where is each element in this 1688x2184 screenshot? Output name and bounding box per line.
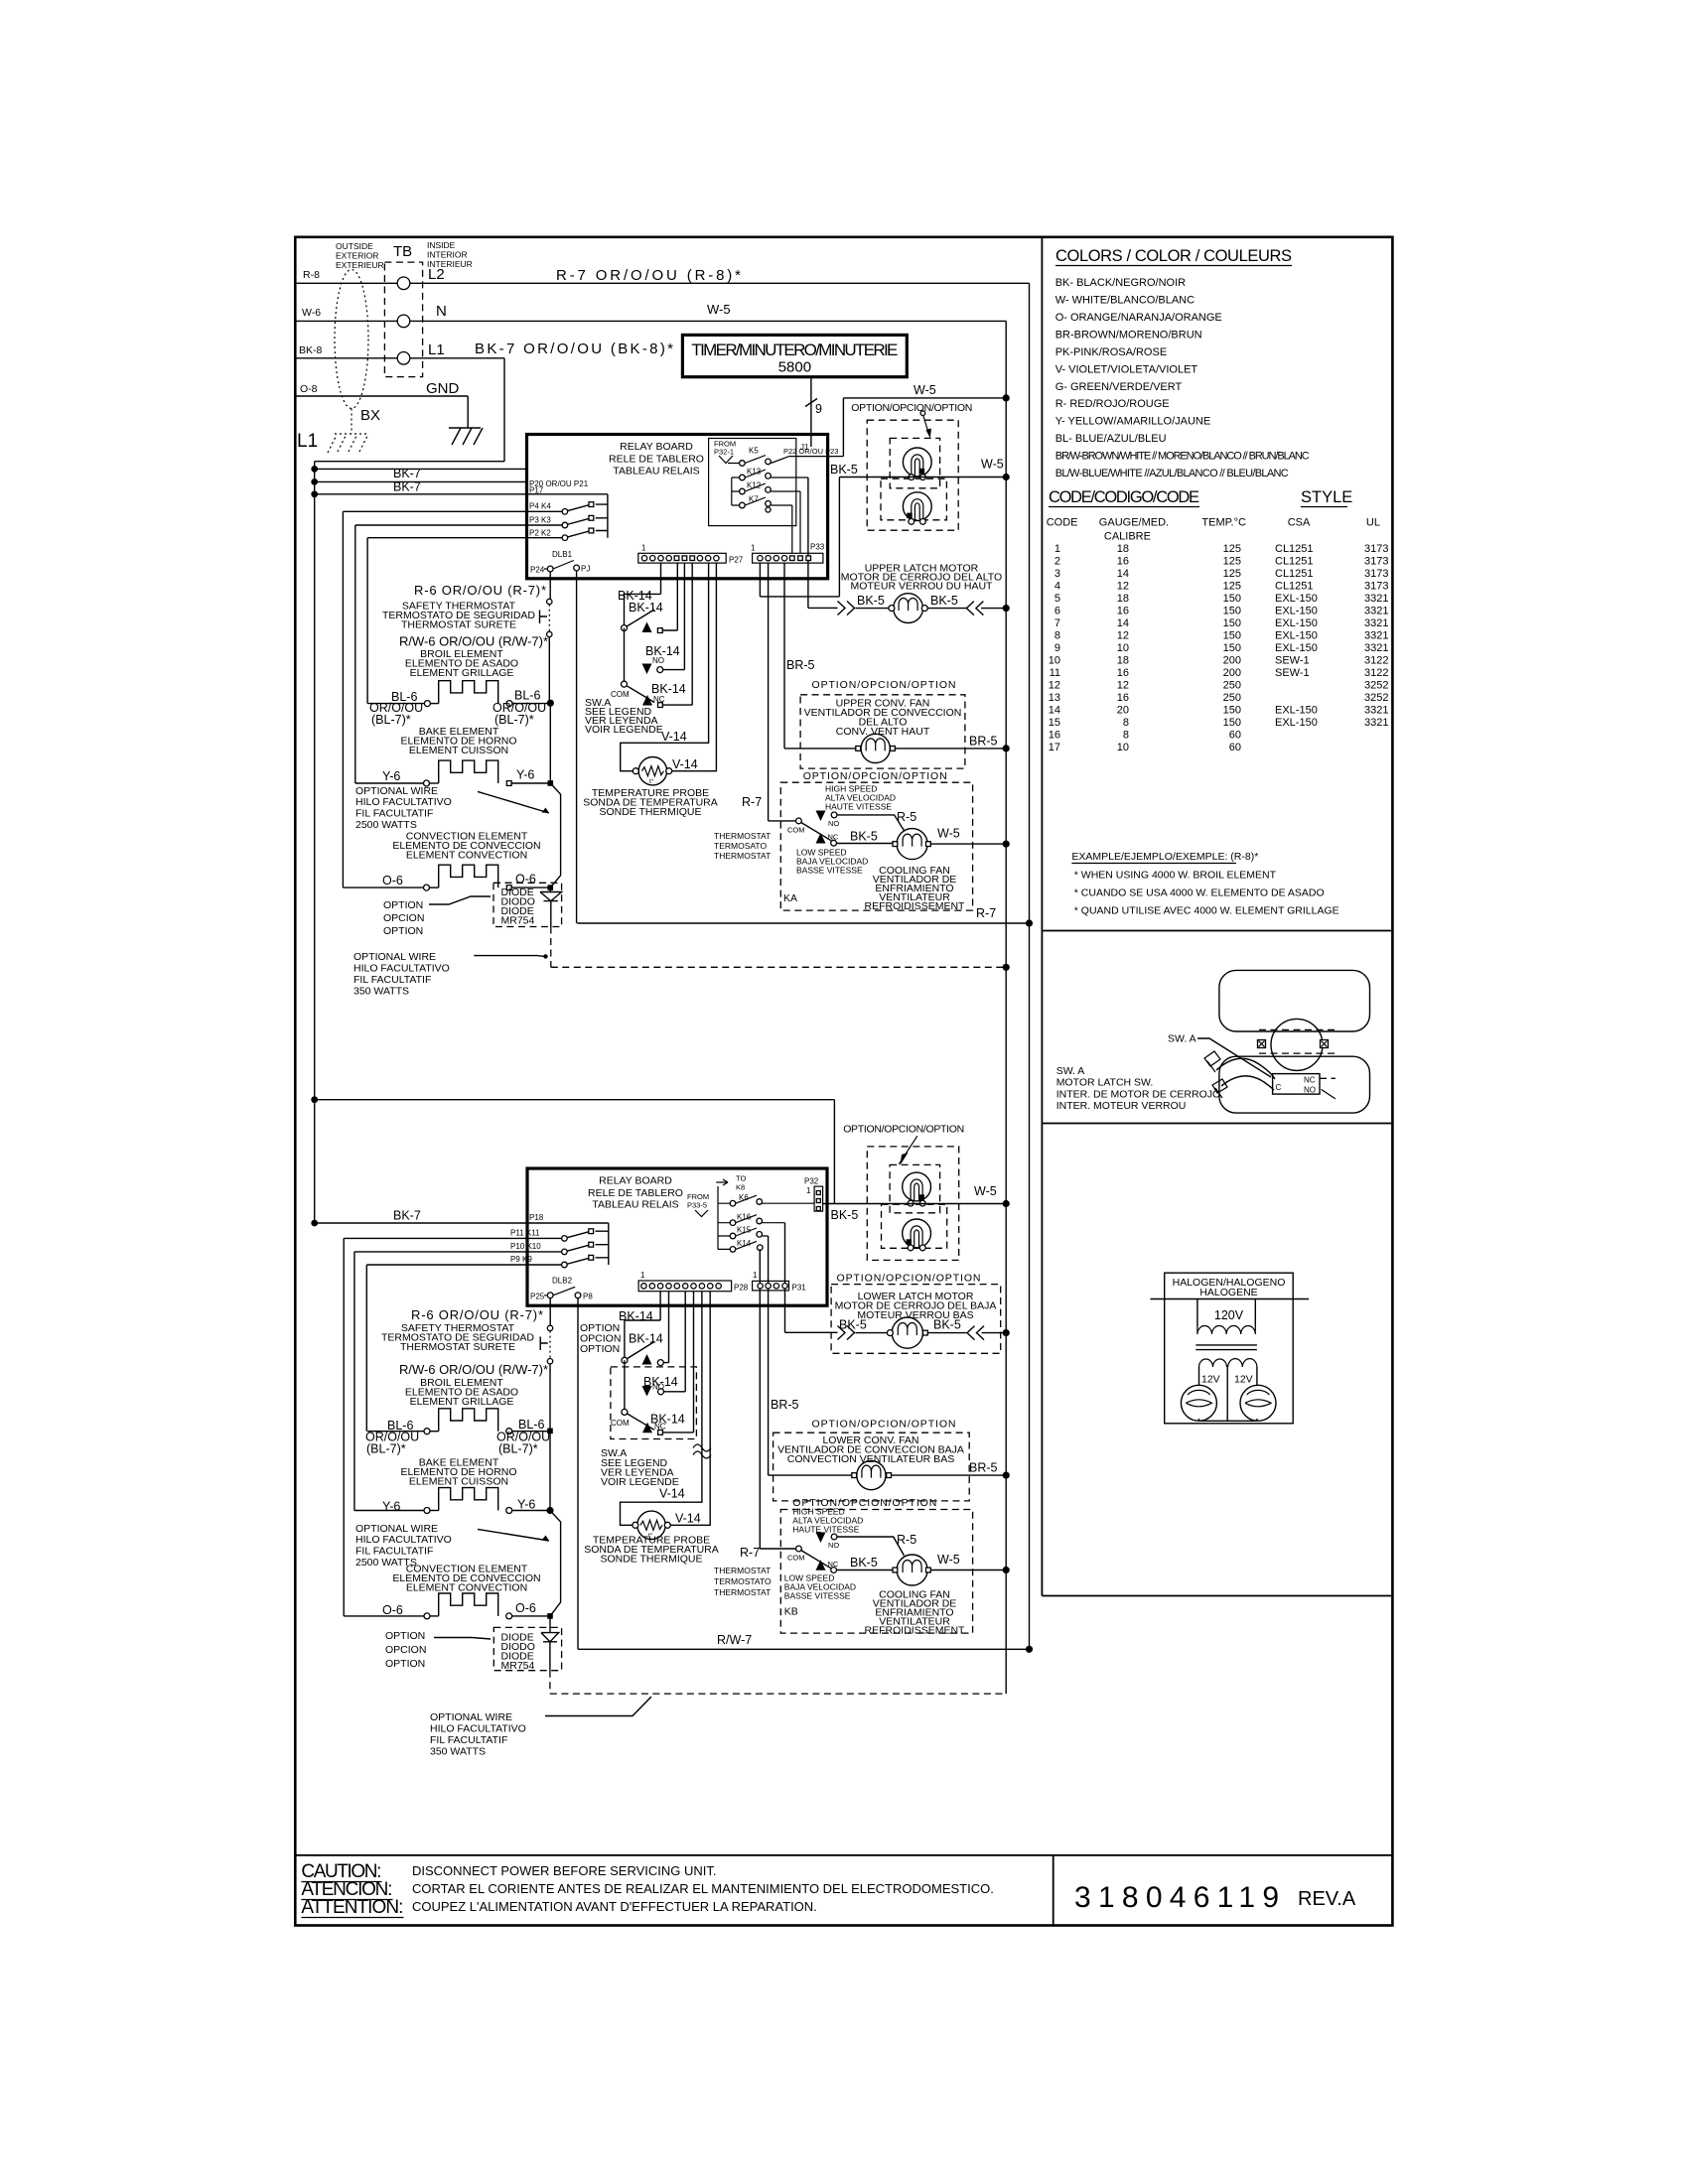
svg-text:R/W-6 OR/O/OU (R/W-7)*: R/W-6 OR/O/OU (R/W-7)* — [399, 634, 548, 649]
svg-text:TB: TB — [393, 243, 412, 260]
svg-text:20: 20 — [1117, 705, 1129, 717]
svg-text:COM: COM — [787, 1554, 805, 1563]
svg-text:R-8: R-8 — [303, 269, 320, 281]
svg-text:P33-5: P33-5 — [687, 1201, 707, 1210]
door solenoid inner box 1 lower — [890, 1164, 940, 1212]
relay board 1 (upper) — [527, 435, 828, 579]
svg-text:BR/W-BROWN/WHITE // MORENO/BLA: BR/W-BROWN/WHITE // MORENO/BLANCO // BRU… — [1055, 451, 1310, 463]
junction dot conv fan upper — [1003, 745, 1010, 751]
svg-text:12: 12 — [1117, 581, 1129, 593]
svg-text:R-6 OR/O/OU (R-7)*: R-6 OR/O/OU (R-7)* — [414, 583, 546, 598]
wire R-8 L2 top line — [295, 282, 1029, 284]
svg-text:O-6: O-6 — [515, 1601, 536, 1615]
svg-text:R-5: R-5 — [897, 810, 916, 824]
svg-text:P22 OR/OU P23: P22 OR/OU P23 — [783, 447, 838, 456]
svg-text:18: 18 — [1117, 655, 1129, 667]
relay DLB1 — [544, 561, 574, 570]
arrow from P32-1 — [719, 456, 733, 464]
svg-text:PJ: PJ — [581, 565, 590, 574]
svg-text:ELEMENT CONVECTION: ELEMENT CONVECTION — [406, 1582, 527, 1594]
svg-text:10: 10 — [1117, 642, 1129, 654]
svg-text:W-5: W-5 — [937, 1553, 960, 1567]
wire latch motor left upper — [856, 608, 889, 610]
svg-text:12: 12 — [1049, 680, 1060, 692]
latch spade terminal 1 — [1204, 1051, 1220, 1072]
svg-text:BK-14: BK-14 — [651, 682, 686, 696]
wire K11 to convection element lower — [344, 1238, 424, 1616]
wire K16 to lower latch motor — [785, 1223, 838, 1333]
wire P22/P23 to W-5 — [843, 398, 1006, 457]
svg-text:P27: P27 — [729, 556, 744, 565]
halogen lamp 1 — [1181, 1385, 1216, 1421]
svg-text:150: 150 — [1223, 642, 1241, 654]
svg-text:3321: 3321 — [1364, 642, 1388, 654]
svg-text:NC: NC — [654, 1423, 666, 1432]
broil element lower — [367, 1431, 424, 1433]
svg-text:INSIDE: INSIDE — [427, 240, 456, 250]
svg-text:120V: 120V — [1214, 1308, 1244, 1322]
svg-text:COM: COM — [611, 1419, 630, 1428]
svg-text:3321: 3321 — [1364, 593, 1388, 605]
thermostat switch lower — [796, 1546, 802, 1552]
svg-text:1: 1 — [751, 544, 756, 553]
svg-text:HAUTE VITESSE: HAUTE VITESSE — [792, 1525, 859, 1535]
svg-text:THERMOSTAT: THERMOSTAT — [714, 851, 771, 861]
svg-text:HILO FACULTATIVO: HILO FACULTATIVO — [355, 1534, 452, 1546]
svg-text:3321: 3321 — [1364, 606, 1388, 617]
svg-text:MOTEUR VERROU DU HAUT: MOTEUR VERROU DU HAUT — [851, 581, 994, 593]
svg-text:OUTSIDE: OUTSIDE — [336, 241, 373, 251]
svg-text:EXL-150: EXL-150 — [1275, 606, 1318, 617]
svg-text:COM: COM — [787, 826, 805, 835]
relay board 2 (lower) — [527, 1168, 827, 1305]
pointer optional wire upper — [478, 791, 549, 813]
wire NC to motor upper — [837, 843, 896, 845]
svg-text:OPTIONAL WIRE: OPTIONAL WIRE — [430, 1711, 512, 1723]
svg-text:EXL-150: EXL-150 — [1275, 705, 1318, 717]
wire P28 pin3 to BK-14 chain lower — [625, 1292, 660, 1361]
junction broil right upper — [547, 700, 554, 707]
wire V-14 probe left upper — [621, 563, 709, 771]
relay K7 — [732, 497, 792, 553]
svg-text:Y-6: Y-6 — [516, 768, 534, 782]
wire V-14 probe right upper — [672, 563, 717, 771]
svg-text:K12: K12 — [747, 481, 762, 490]
caution part number divider — [1053, 1855, 1055, 1926]
svg-text:HALOGENE: HALOGENE — [1199, 1287, 1257, 1298]
diode symbol lower — [541, 1616, 559, 1671]
svg-text:1: 1 — [753, 1271, 758, 1280]
svg-text:BK-7: BK-7 — [393, 480, 421, 494]
svg-text:1: 1 — [640, 1271, 645, 1280]
svg-text:L1: L1 — [297, 431, 318, 452]
svg-text:150: 150 — [1223, 717, 1241, 729]
svg-text:BK-5: BK-5 — [850, 1556, 878, 1570]
switch SW.A upper contact 1 — [625, 563, 678, 630]
svg-text:BR-5: BR-5 — [969, 1461, 998, 1475]
svg-text:NO: NO — [828, 1541, 839, 1550]
terminal block TB dashed box — [384, 262, 422, 377]
latch micro switch box — [1273, 1074, 1320, 1095]
svg-text:L1: L1 — [428, 341, 445, 358]
svg-text:(BL-7)*: (BL-7)* — [494, 713, 534, 727]
svg-text:150: 150 — [1223, 606, 1241, 617]
wire NO to motor upper — [837, 815, 905, 832]
svg-text:BR-5: BR-5 — [771, 1398, 799, 1412]
door solenoid inner box 2 upper — [881, 478, 946, 520]
svg-text:THERMOSTAT SURETE: THERMOSTAT SURETE — [400, 1341, 515, 1353]
latch pictorial rounded rect bottom — [1219, 1056, 1370, 1113]
svg-text:60: 60 — [1229, 730, 1241, 742]
junction bake right lower — [546, 1507, 553, 1514]
svg-text:P8: P8 — [583, 1293, 593, 1301]
svg-text:CORTAR EL CORIENTE ANTES DE RE: CORTAR EL CORIENTE ANTES DE REALIZAR EL … — [412, 1881, 994, 1896]
svg-text:THERMOSTAT: THERMOSTAT — [714, 1587, 771, 1597]
halogen secondary wires — [1198, 1367, 1257, 1421]
lower conv fan motor — [857, 1461, 886, 1490]
junction convection right upper — [548, 885, 554, 890]
latch motor option box lower — [831, 1285, 1001, 1354]
wire conv fan right upper — [895, 748, 1006, 750]
wire K10 to bake element lower — [354, 1252, 424, 1511]
svg-text:* QUAND UTILISE AVEC 4000 W. E: * QUAND UTILISE AVEC 4000 W. ELEMENT GRI… — [1074, 905, 1339, 917]
svg-text:NC: NC — [653, 695, 665, 704]
svg-text:200: 200 — [1223, 667, 1241, 679]
junction dot R-7 upper — [1026, 919, 1033, 926]
svg-text:R-7: R-7 — [740, 1546, 760, 1560]
halogen core — [1196, 1345, 1257, 1350]
door lock option box lower — [867, 1147, 958, 1261]
relay K10 row — [354, 1245, 609, 1252]
switch SW.A lower COM/NC — [625, 1292, 694, 1433]
svg-text:O-6: O-6 — [515, 873, 536, 887]
svg-text:P18: P18 — [529, 1213, 544, 1222]
cooling fan box KA — [780, 782, 972, 910]
svg-text:GND: GND — [426, 380, 460, 397]
svg-text:REV.A: REV.A — [1298, 1888, 1356, 1910]
svg-text:SONDE THERMIQUE: SONDE THERMIQUE — [599, 806, 701, 818]
svg-text:OPTION/OPCION/OPTION: OPTION/OPCION/OPTION — [812, 1419, 956, 1431]
halogen secondary — [1199, 1359, 1257, 1367]
relay K13 — [732, 470, 808, 478]
svg-text:TABLEAU RELAIS: TABLEAU RELAIS — [613, 466, 699, 478]
door solenoid inner box 2 lower — [882, 1204, 947, 1248]
svg-text:8: 8 — [1123, 730, 1129, 742]
svg-text:BK-14: BK-14 — [619, 1309, 653, 1323]
svg-text:CSA: CSA — [1288, 517, 1311, 529]
legend column divider box — [1042, 237, 1392, 931]
junction bake right upper — [548, 780, 554, 786]
svg-text:V- VIOLET/VIOLETA/VIOLET: V- VIOLET/VIOLETA/VIOLET — [1055, 364, 1198, 376]
svg-text:BX: BX — [360, 407, 380, 424]
latch switch NO lead — [1322, 1089, 1336, 1099]
wire W-5 main vertical — [1005, 321, 1007, 1694]
svg-text:EXTERIOR: EXTERIOR — [336, 251, 378, 261]
arrow from P33-5 — [695, 1210, 708, 1217]
svg-text:10: 10 — [1117, 742, 1129, 753]
svg-text:EXL-150: EXL-150 — [1275, 593, 1318, 605]
wire cooling fan right upper — [930, 843, 1006, 845]
svg-text:BK-14: BK-14 — [629, 1332, 663, 1346]
svg-text:P3 K3: P3 K3 — [529, 516, 551, 525]
halogen primary — [1197, 1299, 1255, 1327]
svg-text:TERMOSATO: TERMOSATO — [714, 841, 767, 851]
svg-text:NC: NC — [1304, 1076, 1316, 1085]
connector P31 — [753, 1281, 789, 1291]
latch switch NC dashed lead — [1320, 1077, 1336, 1079]
svg-text:K6: K6 — [739, 1193, 749, 1202]
svg-text:Y-6: Y-6 — [382, 769, 400, 783]
svg-text:NC: NC — [828, 833, 839, 842]
bake element lower — [424, 1508, 430, 1514]
solenoid 2 upper — [903, 492, 931, 521]
BX tail dotted — [351, 409, 352, 435]
svg-text:1: 1 — [806, 1186, 811, 1195]
svg-text:STYLE: STYLE — [1301, 488, 1352, 506]
junction dot solenoid line upper — [1003, 474, 1010, 480]
wire BK-7 to P17 — [315, 480, 527, 482]
wire BK-5 solenoid line lower — [823, 1203, 1007, 1205]
svg-text:10: 10 — [1049, 655, 1060, 667]
svg-text:ELEMENT GRILLAGE: ELEMENT GRILLAGE — [410, 1396, 514, 1408]
svg-text:18: 18 — [1117, 543, 1129, 555]
svg-text:ELEMENT CONVECTION: ELEMENT CONVECTION — [406, 850, 527, 862]
svg-text:* WHEN USING 4000 W. BROIL ELE: * WHEN USING 4000 W. BROIL ELEMENT — [1074, 870, 1277, 882]
svg-text:K16: K16 — [737, 1213, 752, 1222]
wire P17 switch bus — [315, 494, 608, 538]
svg-text:P2 K2: P2 K2 — [529, 529, 551, 538]
relay K5 — [728, 456, 843, 464]
relay K11 row — [344, 1231, 609, 1238]
svg-text:125: 125 — [1223, 543, 1241, 555]
svg-text:C: C — [1276, 1083, 1282, 1092]
svg-text:W- WHITE/BLANCO/BLANC: W- WHITE/BLANCO/BLANC — [1055, 295, 1195, 307]
legend table rows — [1049, 543, 1389, 753]
svg-text:BL/W-BLUE/WHITE //AZUL/BLANCO: BL/W-BLUE/WHITE //AZUL/BLANCO // BLEU/BL… — [1055, 468, 1289, 479]
svg-text:OPTION/OPCION/OPTION: OPTION/OPCION/OPTION — [837, 1273, 981, 1285]
terminal N — [397, 315, 410, 328]
pointer SW. A — [1197, 1038, 1271, 1077]
svg-text:K5: K5 — [749, 447, 759, 456]
svg-text:150: 150 — [1223, 617, 1241, 629]
svg-text:OPTION/OPCION/OPTION: OPTION/OPCION/OPTION — [843, 1124, 964, 1136]
svg-text:FIL FACULTATIF: FIL FACULTATIF — [430, 1734, 507, 1746]
svg-text:INTERIOR: INTERIOR — [427, 250, 468, 260]
svg-text:125: 125 — [1223, 556, 1241, 568]
svg-text:14: 14 — [1117, 568, 1129, 580]
conv fan option box upper — [800, 695, 965, 768]
pointer optional wire lower — [478, 1529, 549, 1541]
halogen 120V feed line — [1151, 1298, 1310, 1300]
svg-text:P33: P33 — [810, 543, 825, 552]
svg-text:BK-8: BK-8 — [299, 344, 323, 356]
svg-text:BK-5: BK-5 — [839, 1318, 867, 1332]
junction dot conv fan lower — [1003, 1472, 1010, 1479]
svg-text:EXL-150: EXL-150 — [1275, 642, 1318, 654]
bake element upper — [424, 780, 430, 786]
solenoid 1 upper — [903, 448, 931, 477]
wire O-8 GND line — [295, 396, 468, 428]
wire latch motor right lower — [927, 1332, 1006, 1334]
latch pictorial mount screws — [1258, 1040, 1266, 1048]
svg-text:OPCION: OPCION — [385, 1644, 426, 1656]
svg-text:3122: 3122 — [1364, 655, 1388, 667]
svg-text:3321: 3321 — [1364, 630, 1388, 642]
svg-text:P25: P25 — [530, 1293, 545, 1301]
junction dot optional upper — [1003, 964, 1010, 971]
svg-text:DLB1: DLB1 — [552, 550, 573, 559]
svg-text:12: 12 — [1117, 680, 1129, 692]
svg-text:150: 150 — [1223, 630, 1241, 642]
svg-text:V-14: V-14 — [675, 1512, 701, 1526]
svg-text:TIMER/MINUTERO/MINUTERIE: TIMER/MINUTERO/MINUTERIE — [691, 341, 898, 359]
svg-text:BK-5: BK-5 — [850, 830, 878, 844]
halogen panel box — [1042, 1124, 1392, 1596]
relay K6 lower — [718, 1186, 814, 1249]
junction convection right lower — [547, 1613, 553, 1619]
halogen transformer box — [1165, 1273, 1294, 1424]
optional wire dashed lower — [550, 1671, 1006, 1694]
pointer option diode lower — [434, 1638, 491, 1640]
relay switch left bus upper — [731, 478, 733, 505]
svg-text:RELE DE TABLERO: RELE DE TABLERO — [609, 454, 704, 466]
svg-text:EXL-150: EXL-150 — [1275, 717, 1318, 729]
latch pictorial dashed shaft lines — [1259, 1029, 1335, 1053]
temperature probe lower — [637, 1511, 665, 1539]
svg-text:INTER. MOTEUR VERROU: INTER. MOTEUR VERROU — [1056, 1100, 1187, 1112]
svg-text:(BL-7)*: (BL-7)* — [371, 713, 411, 727]
svg-text:O-6: O-6 — [382, 874, 403, 887]
motor latch switch panel box — [1042, 931, 1392, 1124]
wire latch motor right upper — [927, 608, 1006, 610]
svg-text:R-7: R-7 — [742, 795, 762, 809]
svg-text:BR-5: BR-5 — [969, 735, 998, 749]
cooling fan motor lower — [897, 1555, 927, 1585]
svg-text:CALIBRE: CALIBRE — [1104, 531, 1151, 543]
thermostat switch upper — [796, 818, 802, 824]
svg-text:R-5: R-5 — [897, 1533, 916, 1547]
svg-text:G- GREEN/VERDE/VERT: G- GREEN/VERDE/VERT — [1055, 381, 1183, 393]
svg-text:R-7 OR/O/OU (R-8)*: R-7 OR/O/OU (R-8)* — [556, 267, 741, 284]
relay K14 lower — [718, 1241, 757, 1249]
wire K4 to convection element — [343, 511, 423, 887]
wire V-14 probe right lower — [670, 1292, 710, 1526]
diode symbol upper — [540, 887, 562, 926]
svg-text:OPTION/OPCION/OPTION: OPTION/OPCION/OPTION — [812, 679, 956, 691]
svg-text:16: 16 — [1049, 730, 1060, 742]
svg-text:O- ORANGE/NARANJA/ORANGE: O- ORANGE/NARANJA/ORANGE — [1055, 312, 1222, 324]
svg-text:11: 11 — [1050, 667, 1060, 679]
svg-text:BK-5: BK-5 — [930, 594, 958, 608]
svg-text:3252: 3252 — [1364, 680, 1388, 692]
svg-text:CL1251: CL1251 — [1275, 568, 1314, 580]
svg-text:3173: 3173 — [1364, 543, 1388, 555]
svg-text:OPTION: OPTION — [580, 1343, 620, 1355]
wire BK-8 L1 line — [295, 358, 504, 1223]
lower latch motor — [892, 1317, 922, 1348]
optional wire jog upper — [550, 783, 560, 887]
temperature probe upper — [638, 757, 666, 785]
svg-text:HILO FACULTATIVO: HILO FACULTATIVO — [430, 1723, 526, 1735]
wire R-7 to thermostat upper — [769, 563, 796, 821]
svg-text:W-5: W-5 — [937, 827, 960, 841]
svg-text:TEMP.°C: TEMP.°C — [1201, 517, 1246, 529]
svg-text:MOTOR LATCH SW.: MOTOR LATCH SW. — [1056, 1077, 1154, 1089]
svg-text:R- RED/ROJO/ROUGE: R- RED/ROJO/ROUGE — [1055, 398, 1170, 410]
svg-text:P32: P32 — [804, 1177, 819, 1186]
upper latch motor — [894, 594, 923, 623]
svg-text:16: 16 — [1117, 606, 1129, 617]
svg-text:INTER. DE MOTOR DE CERROJO: INTER. DE MOTOR DE CERROJO — [1056, 1089, 1220, 1101]
svg-text:RELAY BOARD: RELAY BOARD — [620, 441, 693, 453]
svg-text:12: 12 — [1117, 630, 1129, 642]
svg-text:60: 60 — [1229, 742, 1241, 753]
connector P33 — [753, 553, 823, 563]
svg-text:TERMOSTATO: TERMOSTATO — [714, 1576, 772, 1586]
svg-text:OPTION/OPCION/OPTION: OPTION/OPCION/OPTION — [851, 402, 972, 414]
svg-text:18: 18 — [1117, 593, 1129, 605]
svg-text:BR-5: BR-5 — [786, 658, 815, 672]
junction dot RW-7 — [1026, 1646, 1033, 1653]
svg-text:P24: P24 — [530, 566, 545, 575]
relay K9 row — [366, 1258, 609, 1265]
optional wire dashed upper — [551, 927, 1006, 968]
svg-text:3321: 3321 — [1364, 617, 1388, 629]
svg-text:9: 9 — [1055, 642, 1060, 654]
wire PJ to R-7 horizontal — [577, 571, 1030, 923]
svg-text:W-5: W-5 — [974, 1184, 997, 1198]
svg-text:125: 125 — [1223, 581, 1241, 593]
latch cable harness — [1216, 1058, 1275, 1079]
svg-text:P10 K10: P10 K10 — [510, 1242, 541, 1251]
svg-text:2500 WATTS: 2500 WATTS — [355, 819, 417, 831]
svg-text:O-8: O-8 — [300, 383, 318, 395]
upper conv fan motor — [861, 734, 890, 762]
svg-text:ELEMENT CUISSON: ELEMENT CUISSON — [409, 1476, 508, 1488]
conv fan option box lower — [774, 1433, 970, 1501]
wire R-7 main vertical — [1029, 283, 1031, 1649]
svg-text:250: 250 — [1223, 680, 1241, 692]
svg-text:150: 150 — [1223, 593, 1241, 605]
relay switch block box upper — [709, 439, 796, 526]
svg-text:3173: 3173 — [1364, 568, 1388, 580]
svg-text:Y- YELLOW/AMARILLO/JAUNE: Y- YELLOW/AMARILLO/JAUNE — [1055, 416, 1211, 428]
svg-text:BK-14: BK-14 — [629, 601, 663, 614]
svg-text:3: 3 — [1055, 568, 1060, 580]
solenoid 1 lower — [903, 1172, 931, 1201]
wire K3 to bake element — [355, 525, 424, 783]
svg-text:K7: K7 — [749, 495, 759, 504]
wire timer to J1 with 9 slash — [805, 377, 817, 447]
svg-text:5: 5 — [1055, 593, 1060, 605]
svg-text:CONVECTION VENTILATEUR BAS: CONVECTION VENTILATEUR BAS — [787, 1453, 954, 1465]
svg-text:3122: 3122 — [1364, 667, 1388, 679]
svg-text:16: 16 — [1117, 667, 1129, 679]
wire BK-7 to P18 lower — [315, 1223, 609, 1265]
svg-text:P32-1: P32-1 — [714, 448, 734, 457]
wire break squiggles lower — [693, 1444, 711, 1458]
svg-text:THERMOSTAT: THERMOSTAT — [714, 1566, 771, 1575]
svg-text:K14: K14 — [737, 1239, 752, 1248]
optional wire jog lower — [550, 1511, 561, 1616]
svg-text:Y-6: Y-6 — [382, 1500, 400, 1514]
svg-text:BASSE VITESSE: BASSE VITESSE — [784, 1591, 851, 1601]
svg-text:150: 150 — [1223, 705, 1241, 717]
halogen lamp 2 — [1240, 1385, 1276, 1421]
svg-text:KB: KB — [784, 1606, 798, 1618]
svg-text:MR754: MR754 — [501, 1660, 535, 1672]
latch spade terminal 2 — [1212, 1079, 1227, 1098]
